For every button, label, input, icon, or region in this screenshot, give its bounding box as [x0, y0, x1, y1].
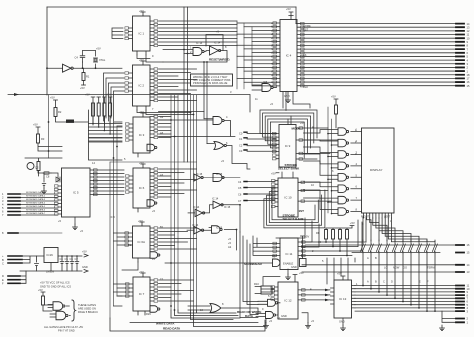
wire single input line — [8, 232, 18, 234]
op-amp U16d inverter — [213, 201, 221, 209]
wire edge stubs left — [8, 194, 20, 215]
svg-text:R26: R26 — [146, 312, 151, 316]
svg-text:IC 9: IC 9 — [285, 144, 291, 148]
svg-text:+5V: +5V — [38, 288, 43, 292]
wire reset out — [163, 51, 227, 63]
wire gnd rail — [20, 270, 82, 272]
svg-text:IC 14: IC 14 — [196, 41, 203, 45]
crystal XTAL1 — [94, 58, 98, 62]
wire bus terminal stubs — [456, 24, 464, 86]
svg-text:C1: C1 — [160, 277, 164, 281]
op-amp U16c inverter — [195, 209, 203, 217]
svg-text:B1: B1 — [160, 225, 164, 229]
wire gate feed verticals — [327, 107, 329, 213]
capacitors C6-C9 — [60, 256, 64, 271]
svg-text:+5V: +5V — [80, 86, 85, 90]
wire +5V output — [58, 255, 82, 257]
svg-text:A6: A6 — [160, 131, 164, 135]
wire IC5 outputs right — [94, 170, 125, 195]
svg-text:C7: C7 — [238, 199, 242, 203]
svg-text:IC 15: IC 15 — [224, 205, 231, 209]
gate U18h — [338, 208, 346, 216]
svg-text:B: B — [375, 256, 377, 260]
svg-text:C5: C5 — [65, 257, 69, 261]
svg-text:C4: C4 — [75, 56, 79, 60]
svg-text:ALL GATES HAVE PIN 14 AT +5V: ALL GATES HAVE PIN 14 AT +5V — [44, 325, 83, 329]
gate U18f — [338, 185, 346, 193]
svg-text:GND: GND — [82, 265, 88, 269]
svg-text:IC 4: IC 4 — [286, 54, 292, 58]
svg-text:R1: R1 — [86, 75, 90, 79]
svg-text:R24: R24 — [128, 243, 133, 247]
gate U16f — [212, 226, 220, 234]
op-amp U16e inverter — [194, 226, 202, 234]
svg-text:XTAL: XTAL — [99, 58, 106, 62]
wire to gate A — [159, 119, 214, 121]
svg-text:GND TO GND OF ALL ICS: GND TO GND OF ALL ICS — [40, 285, 71, 289]
gate U3b — [147, 144, 155, 151]
gate U23 xor — [210, 304, 221, 313]
svg-text:C: C — [383, 280, 385, 284]
wire IC4 bottom drops — [283, 92, 310, 111]
svg-text:PIN 7 AT GND: PIN 7 AT GND — [58, 329, 75, 333]
svg-text:+5V: +5V — [300, 121, 305, 125]
wire border left — [46, 7, 48, 95]
gate U22b spare — [56, 311, 66, 320]
svg-text:m: m — [271, 63, 273, 66]
svg-text:HOME: HOME — [303, 24, 311, 28]
gate U18b — [338, 139, 346, 147]
diode D11 — [56, 177, 60, 182]
svg-text:+5V TO VCC OF ALL ICS: +5V TO VCC OF ALL ICS — [40, 281, 70, 285]
node bus junctions — [170, 119, 172, 121]
wire to gate B — [159, 136, 236, 138]
svg-text:C5: C5 — [238, 186, 242, 190]
wire IC11 left inputs — [253, 236, 277, 255]
wire bottom bus stubs — [456, 265, 464, 323]
svg-text:IC 6: IC 6 — [139, 186, 145, 190]
svg-text:READ DATA: READ DATA — [163, 327, 181, 331]
svg-text:+5V: +5V — [82, 250, 87, 254]
wire mid-bottom verticals — [276, 218, 355, 284]
svg-text:DATA: DATA — [245, 314, 254, 318]
gate U7b — [150, 306, 158, 313]
svg-text:IC 5: IC 5 — [73, 191, 79, 195]
gate U18d — [338, 162, 346, 170]
svg-text:IC 14: IC 14 — [214, 41, 221, 45]
wire display bottom pins — [364, 213, 392, 218]
wire keyboard line with arrow — [8, 95, 250, 113]
svg-text:1ST: 1ST — [299, 209, 305, 213]
wire osc input — [47, 67, 63, 69]
resistor R4 — [37, 162, 40, 171]
svg-text:+5V: +5V — [331, 95, 336, 99]
svg-text:IC 15: IC 15 — [196, 172, 203, 176]
svg-text:+5V: +5V — [350, 221, 355, 225]
regulator IC16 LM309 — [44, 248, 58, 263]
svg-text:R2: R2 — [58, 110, 62, 114]
op-amp U14b inverter — [210, 46, 219, 55]
svg-text:IC16: IC16 — [47, 253, 54, 257]
svg-text:+5V: +5V — [286, 7, 291, 11]
svg-text:A2: A2 — [160, 115, 164, 119]
svg-text:GND: GND — [281, 314, 287, 318]
svg-text:+5V: +5V — [271, 172, 276, 176]
svg-text:A: A — [367, 280, 369, 284]
svg-text:IC 16: IC 16 — [216, 226, 223, 230]
wire IC1 bottom drops — [137, 55, 163, 62]
svg-text:IC 5: IC 5 — [110, 215, 115, 219]
wire loop taps down — [240, 232, 258, 318]
svg-text:SELECT BANK: SELECT BANK — [278, 167, 300, 171]
svg-text:C6: C6 — [238, 193, 242, 197]
svg-text:GND: GND — [339, 320, 345, 324]
wire left vertical bus — [113, 122, 115, 306]
svg-text:IC 11: IC 11 — [286, 252, 293, 256]
svg-text:IC 13: IC 13 — [339, 297, 347, 301]
IC 1 — [133, 16, 151, 51]
resistor R2 — [54, 108, 57, 117]
svg-text:C2: C2 — [239, 144, 243, 148]
wire IC9 left feed lines — [247, 133, 277, 151]
wire IC2 left feed bundle — [104, 73, 125, 121]
IC 5 — [62, 168, 91, 217]
gate U15a — [213, 117, 222, 125]
svg-text:D: D — [391, 280, 393, 284]
wire IC9 right out — [299, 128, 338, 159]
svg-text:FS: FS — [303, 53, 307, 57]
wire matrix verticals — [89, 110, 123, 160]
svg-text:C: C — [2, 262, 4, 266]
wire IC1 outputs to bus — [159, 21, 238, 46]
svg-text:+5V: +5V — [139, 270, 144, 274]
wire NAND inputs — [163, 49, 193, 51]
svg-text:A: A — [367, 256, 369, 260]
svg-text:RIGHT: RIGHT — [361, 215, 369, 219]
display module — [362, 128, 395, 213]
svg-text:+5V: +5V — [106, 93, 111, 97]
diode row D1-D10 — [360, 240, 365, 253]
pull-up resistor bank RN1 — [92, 103, 95, 116]
wire osc output — [73, 67, 122, 69]
svg-text:RST: RST — [303, 27, 309, 31]
wire IC6A left stubs — [114, 233, 139, 270]
svg-text:IC 12: IC 12 — [284, 299, 292, 303]
gate U18e — [338, 174, 346, 182]
svg-text:IC 15: IC 15 — [216, 172, 223, 176]
resistor bank RN2 — [325, 230, 328, 240]
svg-text:C4: C4 — [60, 257, 64, 261]
op-amp U16a inverter — [194, 174, 201, 181]
svg-text:KEYBOARD DATA 3: KEYBOARD DATA 3 — [26, 198, 46, 201]
svg-text:C0: C0 — [239, 131, 243, 135]
IC 3 — [133, 117, 150, 153]
gate U21b — [266, 312, 274, 319]
svg-text:D: D — [2, 274, 4, 278]
wire IC12 to IC13 arrows — [302, 289, 331, 291]
wire osc top rail — [83, 50, 96, 52]
svg-text:IC 14: IC 14 — [192, 223, 199, 227]
wire center vertical bus — [170, 95, 172, 310]
svg-text:DISPLAY: DISPLAY — [370, 168, 382, 172]
wire IC6 outputs — [159, 169, 197, 197]
resistor R11 — [43, 172, 51, 174]
svg-text:RESET(MRST): RESET(MRST) — [209, 58, 230, 62]
ground bottom right — [440, 325, 445, 331]
svg-text:PAGE 5 B6A4CC: PAGE 5 B6A4CC — [78, 310, 98, 314]
IC 6A — [133, 226, 151, 258]
one-shot box — [300, 259, 307, 267]
IC 12 — [278, 282, 298, 319]
svg-text:C8: C8 — [46, 175, 50, 179]
wire U15b out — [226, 146, 250, 170]
svg-text:R10: R10 — [254, 282, 259, 286]
transistor Q1 — [27, 163, 34, 170]
wire IC5 inputs from edge — [20, 194, 57, 215]
wire inv out — [203, 177, 241, 179]
wire IC9 top stubs — [288, 116, 291, 125]
capacitor C5 input — [35, 256, 39, 271]
wire vertical bus pair — [183, 7, 185, 162]
wire matrix rows — [89, 103, 123, 141]
gate U18c — [338, 151, 346, 159]
wire border top — [47, 6, 296, 8]
gate U20 — [273, 259, 280, 267]
svg-text:+5V: +5V — [139, 9, 144, 13]
wire border drop to +5V — [295, 7, 297, 24]
gate U18g — [338, 196, 346, 204]
wire gate A out — [225, 121, 231, 137]
wire IC10 left feed lines — [247, 182, 275, 201]
svg-text:LM309: LM309 — [46, 270, 54, 274]
wire IC7 left stubs — [114, 284, 130, 296]
IC 6 — [133, 168, 150, 208]
IC 7 — [133, 277, 150, 311]
wire reset feedback loop — [206, 35, 223, 51]
IC 11 — [280, 238, 298, 270]
svg-text:R3: R3 — [41, 137, 45, 141]
svg-text:+5V: +5V — [138, 219, 143, 223]
svg-text:KEYBOARD DATA 5: KEYBOARD DATA 5 — [26, 205, 46, 208]
svg-text:A3: A3 — [160, 173, 164, 177]
op-amp U17 oscillator inverter — [63, 64, 72, 72]
svg-text:KEYBOARD DATA 6: KEYBOARD DATA 6 — [26, 209, 46, 212]
wire IC11 right lines — [302, 242, 367, 256]
resistor R1 — [82, 73, 85, 81]
brace spare gates — [72, 300, 76, 321]
gate U22a spare — [53, 302, 63, 311]
wire power input stubs — [8, 256, 22, 263]
wire nested loop B — [264, 188, 325, 228]
svg-text:PINNING AS IN DATA VALUE: PINNING AS IN DATA VALUE — [193, 81, 228, 85]
wire IC6A right wires — [159, 228, 197, 249]
svg-text:+5V: +5V — [139, 110, 144, 114]
svg-text:IC 2: IC 2 — [138, 84, 144, 88]
IC 13 — [334, 280, 352, 318]
wire bottom bus lines — [302, 265, 456, 323]
svg-text:IC 7: IC 7 — [139, 292, 145, 296]
svg-text:ARE USED ON: ARE USED ON — [78, 307, 96, 311]
wire IC11 gnd — [287, 269, 289, 274]
capacitor C10 — [42, 178, 46, 188]
gate U21a — [268, 299, 276, 306]
svg-text:KEYBOARD DATA 7: KEYBOARD DATA 7 — [26, 212, 46, 215]
wire scan row line — [110, 161, 197, 163]
wire nested loop A — [260, 110, 317, 158]
svg-text:A2: A2 — [228, 245, 232, 249]
wire IC3 outputs — [159, 117, 172, 138]
wire IC2 outputs — [159, 69, 197, 101]
svg-text:IC 14: IC 14 — [193, 205, 200, 209]
resistor R3 — [37, 134, 40, 143]
svg-text:GO: GO — [403, 265, 407, 269]
svg-text:SELECT BANK: SELECT BANK — [283, 217, 305, 221]
svg-text:C7: C7 — [75, 257, 79, 261]
gate U15b — [214, 142, 224, 150]
svg-text:C1: C1 — [239, 137, 243, 141]
svg-text:IC 1: IC 1 — [138, 32, 144, 36]
wire IC7 outputs — [159, 280, 194, 301]
connector box J1 — [261, 286, 272, 294]
resistor R5 — [335, 105, 338, 114]
IC 9 — [279, 125, 296, 168]
svg-text:R9: R9 — [272, 255, 276, 259]
svg-text:+5V: +5V — [85, 93, 90, 97]
svg-text:IC 14: IC 14 — [212, 197, 219, 201]
resistor R7 — [41, 292, 45, 296]
svg-text:TERM: TERM — [427, 265, 434, 269]
wire diode drops — [363, 253, 435, 311]
gate U18a — [338, 128, 346, 136]
IC 10 — [278, 178, 298, 217]
gate U6b — [147, 200, 155, 207]
wire IC5 gnd — [74, 217, 76, 224]
gate IC8 — [262, 84, 271, 92]
wire IC12 bottom grounds — [265, 319, 267, 323]
svg-text:THESE GATES: THESE GATES — [78, 303, 96, 307]
IC 4 keyboard encoder — [280, 20, 297, 92]
wire inv1 to inv2 — [204, 205, 240, 232]
svg-text:CLK: CLK — [303, 85, 308, 89]
svg-text:C3: C3 — [239, 149, 243, 153]
svg-text:+5V: +5V — [299, 271, 304, 275]
IC 2 — [133, 65, 151, 106]
svg-text:GND: GND — [284, 94, 290, 98]
svg-text:B: B — [375, 280, 377, 284]
svg-text:B: B — [2, 258, 4, 262]
svg-text:IC 3: IC 3 — [139, 133, 145, 137]
svg-text:C4: C4 — [238, 180, 242, 184]
svg-text:+5V: +5V — [33, 123, 38, 127]
svg-text:GND: GND — [291, 265, 297, 269]
svg-text:+5V: +5V — [139, 161, 144, 165]
svg-text:IC 10: IC 10 — [284, 196, 292, 200]
wire bottom return — [110, 318, 265, 331]
gate U16b — [213, 174, 222, 182]
gate U6c — [150, 252, 158, 259]
svg-text:MODE: MODE — [292, 127, 301, 131]
wire display cascade — [363, 217, 435, 242]
svg-text:KEYBOARD DATA 4: KEYBOARD DATA 4 — [26, 202, 46, 205]
svg-text:+5V: +5V — [96, 47, 101, 51]
svg-text:IC 6A: IC 6A — [137, 240, 145, 244]
note box wiring note — [191, 74, 233, 86]
wire IC1 inputs — [112, 28, 123, 39]
wire diode rails — [306, 245, 457, 253]
wire top data bus to edge — [296, 24, 456, 86]
wire gate links — [203, 228, 237, 251]
gate U14a NAND — [193, 48, 202, 56]
wire IC4 left fan — [237, 23, 277, 86]
svg-text:+5V: +5V — [50, 96, 55, 100]
svg-text:KEYBOARD DATA 2: KEYBOARD DATA 2 — [26, 195, 46, 198]
svg-text:E: E — [2, 278, 4, 282]
wire IC2 bottom drops — [137, 110, 194, 115]
wire reset taps down — [203, 62, 205, 119]
svg-text:C6: C6 — [70, 257, 74, 261]
capacitor C4 — [80, 56, 85, 58]
wire IC10 right out — [301, 182, 332, 201]
svg-text:NOW: NOW — [393, 265, 400, 269]
